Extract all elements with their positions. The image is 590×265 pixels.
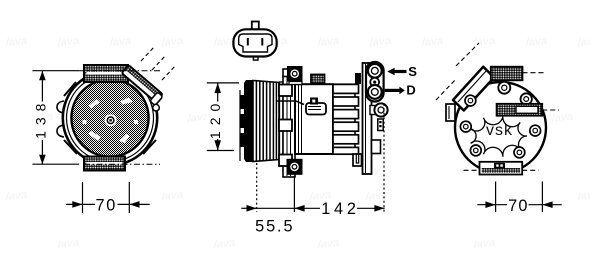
boss stem bbox=[370, 106, 377, 115]
svg-text:vsk: vsk bbox=[486, 122, 513, 139]
svg-text:/ava: /ava bbox=[420, 35, 444, 49]
svg-text:/ava: /ava bbox=[576, 189, 590, 203]
svg-text:/ava: /ava bbox=[368, 35, 392, 49]
rear body circle bbox=[455, 82, 546, 173]
clutch plate cutout SE bbox=[119, 134, 130, 143]
dimension 70 right bbox=[477, 182, 561, 213]
mounting bracket rotated bbox=[453, 67, 494, 111]
dimension 138 bbox=[32, 71, 79, 165]
svg-text:/ava: /ava bbox=[524, 35, 548, 49]
top-right bracket bbox=[120, 65, 164, 105]
extension line pulley center bbox=[256, 163, 258, 212]
svg-text:/ava: /ava bbox=[56, 35, 80, 49]
right port plate bbox=[497, 104, 543, 116]
dimension 55.5 and 142 bbox=[241, 207, 384, 209]
bolt top right bbox=[521, 93, 532, 104]
port block bbox=[366, 62, 384, 102]
top mounting plate bbox=[84, 65, 128, 82]
coil lug 2 bbox=[279, 120, 292, 132]
clutch plate cutout NE bbox=[120, 98, 133, 105]
top mounting ear bbox=[287, 66, 303, 82]
bolt top middle bbox=[498, 82, 510, 94]
boss lower tab bbox=[378, 119, 383, 131]
middle bolt bbox=[370, 78, 379, 87]
svg-text:120: 120 bbox=[207, 98, 223, 139]
top small bracket bbox=[311, 75, 325, 84]
top plate axis dash bbox=[523, 72, 547, 74]
bracket end bolt bbox=[153, 104, 160, 111]
dimension 120 bbox=[207, 83, 239, 151]
head top tab bbox=[355, 73, 361, 84]
cylinder head fins bbox=[333, 84, 355, 154]
arrow D bbox=[385, 89, 400, 92]
dimension 70 left bbox=[66, 182, 150, 213]
bolt bottom left bbox=[470, 145, 481, 156]
bolt right bbox=[530, 125, 541, 136]
bracket bolt bbox=[465, 95, 476, 106]
svg-text:/ava: /ava bbox=[550, 111, 574, 125]
svg-text:/ava: /ava bbox=[4, 35, 28, 49]
suction port S bbox=[368, 64, 382, 78]
left small bracket bbox=[446, 104, 455, 121]
centerline bottom bbox=[84, 163, 160, 165]
cutout dot W bbox=[83, 120, 87, 124]
coil lug 3 bbox=[279, 155, 292, 167]
housing corner flats bbox=[64, 82, 156, 154]
bottom mounting plate bbox=[84, 157, 125, 171]
bottom lug bbox=[353, 154, 362, 166]
svg-text:/ava: /ava bbox=[472, 35, 496, 49]
svg-text:55.5: 55.5 bbox=[255, 218, 294, 236]
bottom mounting ear bbox=[287, 159, 303, 175]
wire to solenoid connector bbox=[277, 101, 304, 105]
svg-text:142: 142 bbox=[321, 200, 360, 218]
hub bbox=[105, 114, 117, 126]
centerline top bbox=[79, 70, 160, 72]
bolt bottom right bbox=[514, 147, 525, 158]
top plate bbox=[491, 67, 523, 81]
bottom foot bbox=[480, 162, 523, 175]
rear boss bbox=[374, 103, 387, 116]
pulley clutch black strip bbox=[241, 80, 254, 162]
coil lug 1 bbox=[279, 85, 292, 97]
svg-text:/ava: /ava bbox=[472, 237, 496, 251]
head end plate bbox=[363, 63, 372, 174]
clutch coil column bbox=[283, 76, 295, 177]
svg-text:/ava: /ava bbox=[212, 35, 236, 49]
svg-text:138: 138 bbox=[33, 98, 49, 139]
extension line rear bracket bbox=[383, 104, 385, 212]
plate foot bbox=[372, 140, 381, 154]
svg-text:70: 70 bbox=[95, 197, 117, 215]
housing left bumps bbox=[57, 101, 64, 137]
coil cap bbox=[283, 69, 294, 77]
clutch plate cutout NW bbox=[89, 99, 101, 109]
svg-text:70: 70 bbox=[508, 197, 529, 215]
svg-text:/ava: /ava bbox=[160, 189, 184, 203]
clutch plate stippled disc bbox=[71, 79, 148, 156]
svg-text:/ava: /ava bbox=[316, 237, 340, 251]
svg-text:/ava: /ava bbox=[108, 35, 132, 49]
extension line ear bolt bbox=[293, 178, 295, 213]
svg-text:/ava: /ava bbox=[4, 189, 28, 203]
foot axis dashes bbox=[464, 169, 539, 171]
discharge port D bbox=[368, 85, 382, 99]
pulley ring circle bbox=[67, 75, 154, 162]
svg-text:/ava: /ava bbox=[576, 35, 590, 49]
right plate axis dash bbox=[542, 109, 559, 111]
svg-text:/ava: /ava bbox=[160, 35, 184, 49]
bolt axis dashed lines bbox=[436, 43, 479, 100]
svg-text:/ava: /ava bbox=[56, 237, 80, 251]
cutout dot E bbox=[134, 120, 138, 124]
pulley grooves bbox=[253, 81, 279, 162]
pulley side: front face line bbox=[239, 90, 241, 161]
svg-text:/ava: /ava bbox=[212, 237, 236, 251]
clutch outer circle bbox=[63, 71, 157, 165]
svg-text:S: S bbox=[408, 64, 417, 79]
svg-text:/ava: /ava bbox=[316, 35, 340, 49]
svg-text:D: D bbox=[406, 83, 415, 98]
bolt axis dashed lines bbox=[141, 46, 176, 80]
pulley rear flange bbox=[280, 82, 284, 160]
solenoid connector flag bbox=[306, 103, 326, 115]
clutch plate cutout SW bbox=[89, 131, 102, 141]
arrow S bbox=[394, 70, 406, 73]
body block bbox=[295, 84, 333, 154]
connector bbox=[233, 22, 276, 61]
bolt left bbox=[460, 121, 471, 132]
casting lobed contour bbox=[471, 115, 527, 156]
